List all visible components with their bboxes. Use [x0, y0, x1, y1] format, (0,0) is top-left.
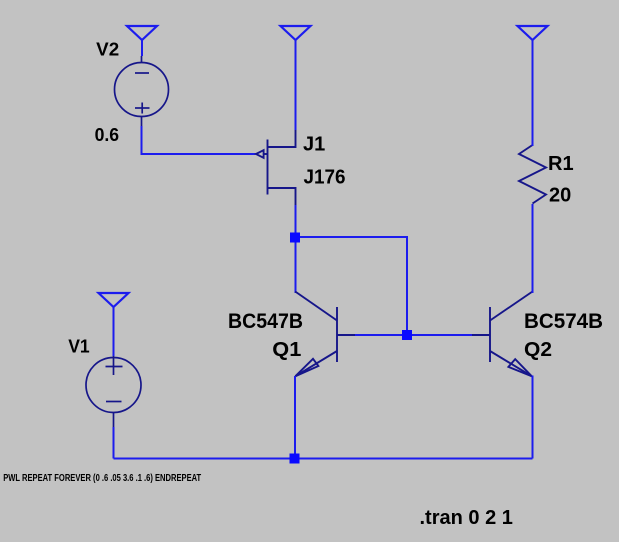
- resistor R1: [519, 145, 546, 204]
- svg-text:R1: R1: [548, 153, 574, 175]
- voltage source V1: [86, 355, 141, 428]
- wire: ground to R1 top: [532, 39, 534, 146]
- transistor Q2 (BC574B NPN): [472, 292, 533, 377]
- ground (top, above V2): [127, 26, 157, 40]
- wire: node across to base node: [296, 237, 408, 335]
- wire: node to Q1 collector: [295, 237, 297, 293]
- svg-text:Q2: Q2: [524, 339, 552, 361]
- svg-text:J176: J176: [304, 167, 346, 189]
- svg-text:BC574B: BC574B: [524, 310, 603, 333]
- svg-text:V1: V1: [68, 337, 90, 357]
- wire: ground to V1 top: [113, 306, 115, 356]
- wire: rail up to Q2 emitter: [532, 376, 534, 459]
- svg-text:Q1: Q1: [272, 339, 301, 361]
- wire: V2 bottom to J1 gate: [142, 126, 256, 154]
- svg-text:V2: V2: [96, 40, 119, 60]
- wire: bottom rail: [114, 458, 533, 460]
- voltage source V2: [115, 56, 169, 127]
- junction node (J1 source / Q1 collector): [290, 233, 300, 243]
- wire: top ground to J1 drain: [295, 39, 297, 130]
- wire: Q1 emitter down to bottom rail: [294, 376, 296, 459]
- svg-text:PWL REPEAT FOREVER (0 .6 .05 3: PWL REPEAT FOREVER (0 .6 .05 3.6 .1 .6) …: [3, 473, 201, 484]
- wire: J1 source to node: [295, 205, 297, 237]
- junction node (bottom rail): [290, 454, 300, 464]
- wire: ground to V2 top: [141, 39, 143, 56]
- svg-text:.tran 0 2 1: .tran 0 2 1: [420, 507, 513, 529]
- ground (above V1): [99, 293, 129, 307]
- ground (top, above J1 drain): [281, 26, 311, 40]
- transistor Q1 (BC547B NPN, mirrored): [295, 292, 355, 377]
- wire: V1 bottom to rail: [113, 427, 115, 459]
- svg-text:BC547B: BC547B: [228, 310, 303, 333]
- transistor J1 (J176 P-JFET): [256, 129, 296, 206]
- svg-text:J1: J1: [303, 134, 325, 156]
- ground (top, above R1): [518, 26, 548, 40]
- wire: Q1 base to node: [355, 334, 472, 336]
- svg-text:20: 20: [549, 185, 571, 207]
- wire: Q2 collector up to R1: [532, 204, 534, 293]
- junction node (bases): [402, 330, 412, 340]
- svg-text:0.6: 0.6: [95, 125, 120, 145]
